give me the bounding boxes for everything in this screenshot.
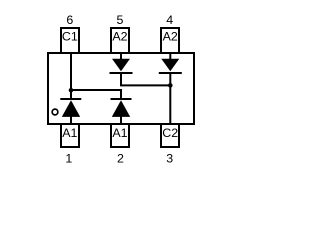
svg-text:C1: C1 (62, 29, 78, 43)
pin 6 box (61, 28, 79, 53)
wire pin4 to D4 anode (169, 53, 171, 60)
pin 1 box (61, 124, 79, 147)
svg-text:A2: A2 (112, 29, 127, 43)
diode D1 cathode bar (60, 98, 81, 100)
diode D3 triangle (112, 59, 130, 71)
package outline (48, 53, 194, 124)
diode D4 cathode bar (159, 72, 182, 74)
wire D2 anode to pin2 (120, 117, 122, 125)
diode D3 cathode bar (110, 72, 133, 74)
diode D1 triangle (62, 100, 80, 117)
svg-text:1: 1 (65, 152, 72, 166)
svg-text:A2: A2 (163, 29, 178, 43)
svg-text:6: 6 (66, 13, 73, 27)
diode D2 cathode bar (111, 98, 132, 100)
diode D4 triangle (161, 59, 179, 71)
pin 2 box (111, 124, 129, 147)
wire D1 anode to pin1 (70, 117, 72, 125)
wire D3 cathode to node K2 (121, 73, 170, 85)
wire D4 cathode to pin3 (169, 73, 171, 124)
svg-text:A1: A1 (62, 126, 77, 140)
junction dot node K1 (69, 88, 74, 93)
pin 3 box (161, 124, 179, 147)
diode D2 triangle (112, 100, 130, 117)
svg-text:5: 5 (117, 13, 124, 27)
wire pin6 to node K1 (70, 53, 72, 99)
wire pin5 to D3 anode (120, 53, 122, 60)
svg-text:3: 3 (166, 152, 173, 166)
junction dot node K2 (168, 83, 173, 88)
svg-text:4: 4 (166, 13, 173, 27)
svg-text:A1: A1 (112, 126, 127, 140)
svg-text:2: 2 (117, 152, 124, 166)
svg-text:C2: C2 (162, 126, 178, 140)
wire node K1 to D2 cathode (71, 90, 121, 99)
pin 1 indicator circle (52, 109, 58, 115)
pin 4 box (161, 28, 179, 53)
pin 5 box (111, 28, 129, 53)
